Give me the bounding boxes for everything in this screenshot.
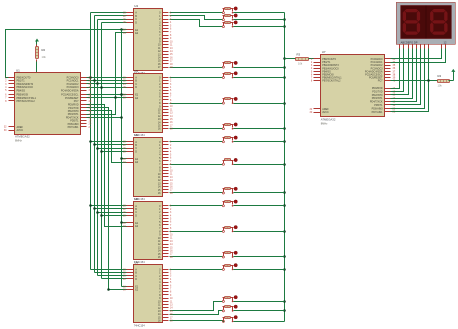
wire button 1 right lead to bus — [234, 12, 285, 14]
wire bus to R3 — [285, 58, 296, 60]
wire button 6 left lead — [170, 103, 223, 105]
svg-text:8MHz: 8MHz — [321, 121, 328, 125]
wire U1 PD0 to U8 E2 — [87, 105, 127, 227]
node junction bus tap — [283, 127, 286, 130]
push button SW5 with pull resistor — [222, 72, 237, 79]
wire button 3 right lead to bus — [234, 26, 285, 28]
wire R3 to U7 PB0 — [309, 58, 321, 60]
wire U1 PD3 to U4 E2 — [87, 33, 127, 115]
push button SW9 with pull resistor — [222, 158, 237, 165]
node junction bus tap — [283, 102, 286, 105]
node junction bus tap — [283, 230, 286, 233]
wire D1 U1 to U5 — [87, 80, 127, 82]
svg-text:U8: U8 — [134, 197, 138, 201]
node junction D3-U5 — [100, 86, 103, 89]
push button SW14 with pull resistor — [222, 264, 237, 271]
decoder IC U8 (74HC154) — [123, 197, 173, 264]
wire segment g to display — [391, 49, 425, 109]
push button SW1 with pull resistor — [222, 7, 237, 14]
wire data bus D1 vertical — [94, 16, 96, 273]
svg-text:PD7/AIN1: PD7/AIN1 — [372, 111, 383, 114]
wire button 17 right lead to bus — [234, 321, 285, 323]
node junction DP pull-up — [427, 79, 430, 82]
svg-text:8MHz: 8MHz — [15, 138, 22, 142]
node junction bus tap — [283, 18, 286, 21]
wire E1 tap U6 — [122, 158, 127, 160]
node junction PD4-E1 — [120, 116, 123, 119]
decoder IC U6 (74HC154) — [123, 133, 173, 201]
wire E1 tap U9 — [122, 286, 127, 288]
node junction E1-U5 — [120, 93, 123, 96]
wire E1 chain vertical — [121, 30, 123, 287]
wire D3 to U6 — [102, 151, 127, 153]
wire button 7 left lead — [170, 128, 223, 130]
resistor R2 — [36, 45, 47, 62]
svg-text:D: D — [135, 21, 137, 24]
wire D2 to U9 — [98, 275, 127, 277]
wire D1 to U8 — [95, 208, 127, 210]
node junction D0-U8 — [89, 204, 92, 207]
svg-text:ABCDEFG DP: ABCDEFG DP — [401, 40, 418, 44]
wire U7 pin to R4 — [391, 80, 438, 82]
decoder IC U9 (74HC154) — [123, 261, 173, 328]
wire D2 to U6 — [98, 148, 127, 150]
svg-text:D: D — [135, 150, 137, 153]
wire button 5 right lead to bus — [234, 77, 285, 79]
node junction E1 row U5 — [120, 93, 123, 96]
wire button 12 left lead — [170, 231, 223, 233]
svg-text:10k: 10k — [438, 84, 443, 88]
wire D0 to U4 — [91, 12, 127, 14]
wire D2 to U4 — [98, 19, 127, 21]
node junction bus tap — [283, 163, 286, 166]
node junction bus to R3 — [283, 57, 286, 60]
wire R4 to VCC — [449, 80, 454, 82]
svg-text:PB4/SS: PB4/SS — [17, 89, 26, 92]
wire button 6 right lead to bus — [234, 103, 285, 105]
wire segment dp to display — [391, 49, 429, 112]
node junction E1-U8 — [120, 221, 123, 224]
decoder IC U5 (74HC154) — [123, 69, 173, 137]
node junction E2-U5 — [114, 96, 117, 99]
wire button 10 right lead to bus — [234, 192, 285, 194]
wire button 12 right lead to bus — [234, 231, 285, 233]
wire U1 pin1 to U4 E1 net — [6, 30, 127, 78]
node junction D3-U8 — [100, 214, 103, 217]
wire button 16 right lead to bus — [234, 310, 285, 312]
node junction bus tap — [283, 300, 286, 303]
push button SW7 with pull resistor — [222, 123, 237, 130]
wire U7 digit2 select — [391, 49, 446, 63]
push button SW15 with pull resistor — [222, 296, 237, 303]
wire button 13 left lead — [170, 256, 223, 258]
svg-text:ATMEGA32: ATMEGA32 — [15, 135, 30, 139]
wire data bus D3 vertical — [101, 23, 103, 279]
wire D3 U1 to U5 — [87, 87, 127, 89]
node junction bus tap — [283, 66, 286, 69]
svg-text:U5: U5 — [134, 69, 138, 73]
wire E1 row U5 from U1 pin6 — [87, 94, 127, 96]
wire button 8 right lead to bus — [234, 141, 285, 143]
resistor R4 — [438, 74, 450, 87]
node junction E1 chain top — [120, 28, 123, 31]
wire button 15 left lead — [170, 302, 223, 311]
wire button 2 left lead — [170, 16, 223, 20]
push button SW16 with pull resistor — [222, 305, 237, 312]
wire U1 PD1 to U9 E2 — [87, 108, 127, 290]
node junction bus tap — [283, 268, 286, 271]
svg-text:10k: 10k — [298, 61, 303, 65]
wire data bus D2 vertical — [97, 20, 99, 276]
wire D0 U1 to U5 — [87, 77, 127, 79]
wire D0 to U9 — [91, 269, 127, 271]
wire button 4 left lead — [170, 67, 223, 69]
wire button 1 left lead — [170, 12, 223, 14]
power VCC symbol for R4 — [451, 69, 455, 72]
wire D2 U1 to U5 — [87, 83, 127, 85]
wire D1 to U6 — [95, 144, 127, 146]
svg-text:ATMEGA32: ATMEGA32 — [321, 118, 336, 122]
wire D3 to U9 — [102, 278, 127, 280]
wire button 14 right lead to bus — [234, 269, 285, 271]
node junction D0-U5 — [89, 76, 92, 79]
wire button 14 left lead — [170, 269, 223, 271]
svg-text:PC4/ADC4/SDA: PC4/ADC4/SDA — [61, 89, 79, 92]
svg-text:PC7: PC7 — [378, 80, 383, 83]
decoder IC U4 (74HC154) — [123, 4, 173, 75]
wire D3 to U4 — [102, 22, 127, 24]
wire D0 to U8 — [91, 205, 127, 207]
wire button 3 left lead — [170, 20, 223, 27]
svg-text:U1: U1 — [16, 69, 20, 73]
svg-text:D: D — [135, 278, 137, 281]
wire button 10 left lead — [170, 192, 223, 194]
node junction D2-U6 — [96, 147, 99, 150]
wire button 4 right lead to bus — [234, 67, 285, 69]
wire U1 PD2 to U6 E2 — [87, 111, 127, 163]
svg-text:AVCC: AVCC — [322, 111, 329, 114]
svg-text:U4: U4 — [134, 4, 138, 8]
node junction bus tap — [283, 76, 286, 79]
svg-text:74HC154: 74HC154 — [134, 323, 146, 327]
wire button 9 right lead to bus — [234, 164, 285, 166]
node junction bus tap — [283, 140, 286, 143]
node junction D2-U5 — [96, 82, 99, 85]
svg-text:U7: U7 — [322, 50, 326, 54]
op-amp U1 (microcontroller ATMEGA32) — [4, 69, 92, 143]
wire segment e to display — [391, 49, 417, 102]
push button SW6 with pull resistor — [222, 97, 237, 104]
push button SW2 with pull resistor — [222, 14, 237, 21]
svg-text:U6: U6 — [134, 133, 138, 137]
wire D0 to U6 — [91, 141, 127, 143]
node junction bus tap — [283, 309, 286, 312]
wire E1 tap U5 — [122, 94, 127, 96]
node junction D1-U8 — [93, 207, 96, 210]
svg-text:R2: R2 — [42, 48, 46, 52]
svg-text:R4: R4 — [438, 74, 442, 78]
resistor R3 — [296, 52, 309, 65]
wire D1 to U9 — [95, 272, 127, 274]
node junction D2-U8 — [96, 211, 99, 214]
wire segment c to display — [391, 49, 409, 95]
svg-text:10k: 10k — [42, 55, 47, 59]
wire D1 to U4 — [95, 15, 127, 17]
push button SW10 with pull resistor — [222, 187, 237, 194]
wire button 8 left lead — [170, 141, 223, 143]
svg-text:PB7/SCK/XTAL2: PB7/SCK/XTAL2 — [17, 100, 36, 103]
wire keypad common bus vertical — [284, 13, 286, 322]
wire segment b to display — [391, 49, 404, 92]
node junction bus tap — [283, 25, 286, 28]
power VCC symbol for R2 — [35, 39, 39, 42]
wire button 11 right lead to bus — [234, 205, 285, 207]
wire segment d to display — [391, 49, 413, 99]
svg-text:PD7/AIN1: PD7/AIN1 — [68, 126, 79, 129]
push button SW3 with pull resistor — [222, 21, 237, 28]
node junction bus tap — [283, 255, 286, 258]
wire E2 tap U5 from U1 pin7 — [87, 97, 127, 99]
push button SW4 with pull resistor — [222, 61, 237, 68]
push button SW11 with pull resistor — [222, 200, 237, 207]
op-amp U7 (microcontroller ATMEGA32) — [310, 50, 396, 126]
wire U1 PD4 join E1 chain — [87, 117, 122, 119]
node junction D1-U6 — [93, 143, 96, 146]
wire D2 to U8 — [98, 212, 127, 214]
wire segment a to display — [391, 49, 400, 89]
wire button 17 left lead — [170, 321, 224, 322]
svg-text:PB7/SCK/XTAL2: PB7/SCK/XTAL2 — [322, 80, 341, 83]
push button SW12 with pull resistor — [222, 226, 237, 233]
wire U7 digit1 select — [391, 49, 442, 59]
svg-text:AVCC: AVCC — [17, 129, 24, 132]
node junction D0-U6 — [89, 140, 92, 143]
node junction D1-U5 — [93, 79, 96, 82]
svg-text:R3: R3 — [297, 52, 301, 56]
node junction bus tap — [283, 191, 286, 194]
svg-text:D: D — [135, 86, 137, 89]
wire button 15 right lead to bus — [234, 301, 285, 303]
svg-text:PC7: PC7 — [74, 100, 79, 103]
svg-text:D: D — [135, 214, 137, 217]
wire button 9 left lead — [170, 164, 223, 166]
wire button 13 right lead to bus — [234, 256, 285, 258]
node junction U9 E2 corner — [107, 288, 110, 291]
wire button 2 right lead to bus — [234, 19, 285, 21]
wire button 7 right lead to bus — [234, 128, 285, 130]
node junction E1-U6 — [120, 157, 123, 160]
push button SW17 with pull resistor — [222, 316, 237, 323]
wire D3 to U8 — [102, 215, 127, 217]
wire button 16 left lead — [170, 311, 223, 315]
wire data bus D0 vertical — [90, 13, 92, 270]
wire button 5 left lead — [170, 77, 223, 79]
wire E1 tap U8 — [122, 222, 127, 224]
display 7SEG-MPX2 two digit seven segment — [396, 2, 455, 48]
node junction bus tap — [283, 204, 286, 207]
wire button 11 left lead — [170, 205, 223, 207]
wire segment f to display — [391, 49, 421, 105]
node junction D3-U6 — [100, 150, 103, 153]
svg-text:U9: U9 — [134, 261, 138, 265]
push button SW13 with pull resistor — [222, 251, 237, 258]
wire R2 to U1 — [36, 62, 38, 73]
push button SW8 with pull resistor — [222, 136, 237, 143]
